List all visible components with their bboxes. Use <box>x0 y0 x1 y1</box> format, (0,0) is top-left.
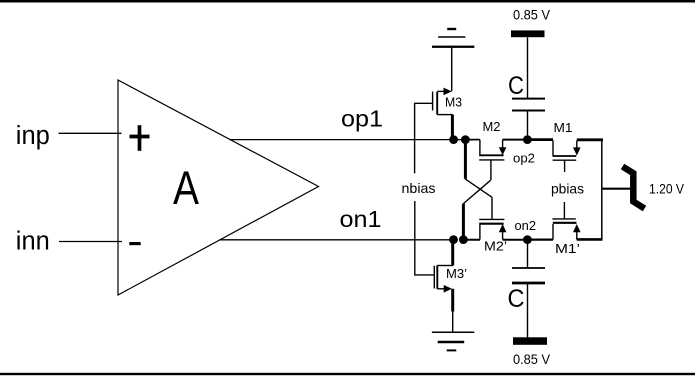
wire op1 <box>230 139 466 141</box>
wire cross-coupling op1 to M2' gate <box>465 140 492 220</box>
svg-text:M3’: M3’ <box>446 266 467 281</box>
capacitor C bottom <box>508 240 546 338</box>
svg-text:A: A <box>173 161 200 214</box>
svg-text:M1’: M1’ <box>555 241 580 256</box>
wire rail M1 to right rail <box>577 138 603 141</box>
frame bottom border <box>0 373 695 375</box>
svg-text:inp: inp <box>16 122 50 150</box>
supply bar top 0.85 V <box>511 7 551 38</box>
svg-text:M2: M2 <box>483 119 501 134</box>
frame top border <box>0 0 695 3</box>
transistor M2' <box>479 219 507 253</box>
supply symbol top (inverted ground) <box>432 29 474 48</box>
wire on1 <box>220 239 454 241</box>
svg-text:inn: inn <box>16 228 50 256</box>
supply bar bottom 0.85 V <box>513 337 551 367</box>
svg-text:op2: op2 <box>513 150 535 165</box>
op-amp A <box>118 80 319 295</box>
svg-text:op1: op1 <box>341 106 383 132</box>
transistor M2 <box>479 119 506 160</box>
wire supply to M3 drain <box>451 48 453 92</box>
svg-text:nbias: nbias <box>402 180 436 196</box>
svg-text:M3: M3 <box>445 95 462 110</box>
svg-text:1.20 V: 1.20 V <box>649 180 685 196</box>
node on2 <box>515 218 537 244</box>
wire rail op2 to M1 <box>527 138 553 141</box>
svg-text:pbias: pbias <box>551 181 584 197</box>
transistor M1' <box>552 202 580 256</box>
svg-text:0.85 V: 0.85 V <box>513 351 551 367</box>
wire right rail <box>601 139 603 241</box>
svg-text:M1: M1 <box>554 120 573 135</box>
junction dots op1 rail <box>449 135 470 144</box>
wire rail on1 thick segment <box>463 239 480 241</box>
capacitor C top <box>508 37 545 139</box>
transistor M1 <box>553 120 581 172</box>
wire rail M1' to right rail <box>577 238 602 241</box>
net nbias <box>402 103 436 275</box>
wire rail op1 thick segment <box>465 139 480 141</box>
wire rail M2' to on2 <box>503 239 527 241</box>
transistor M3 <box>414 88 462 140</box>
wire output tap <box>602 188 631 190</box>
transistor M3' <box>434 240 467 332</box>
ground symbol bottom <box>432 332 474 350</box>
svg-text:C: C <box>508 72 524 100</box>
wire cross-coupling M2 gate to on1 <box>463 160 491 240</box>
wire inn <box>59 241 122 243</box>
output probe squiggle <box>623 167 645 209</box>
svg-text:on1: on1 <box>340 206 382 232</box>
junction dots on1 rail <box>449 235 468 244</box>
svg-text:on2: on2 <box>515 218 537 233</box>
wire inp <box>59 132 122 134</box>
svg-text:C: C <box>508 285 525 313</box>
wire rail on2 to M1' <box>527 239 553 241</box>
wire rail M2 to op2 <box>503 139 527 141</box>
svg-text:0.85 V: 0.85 V <box>513 7 551 23</box>
svg-text:M2’: M2’ <box>484 239 507 254</box>
node op2 <box>513 135 535 165</box>
